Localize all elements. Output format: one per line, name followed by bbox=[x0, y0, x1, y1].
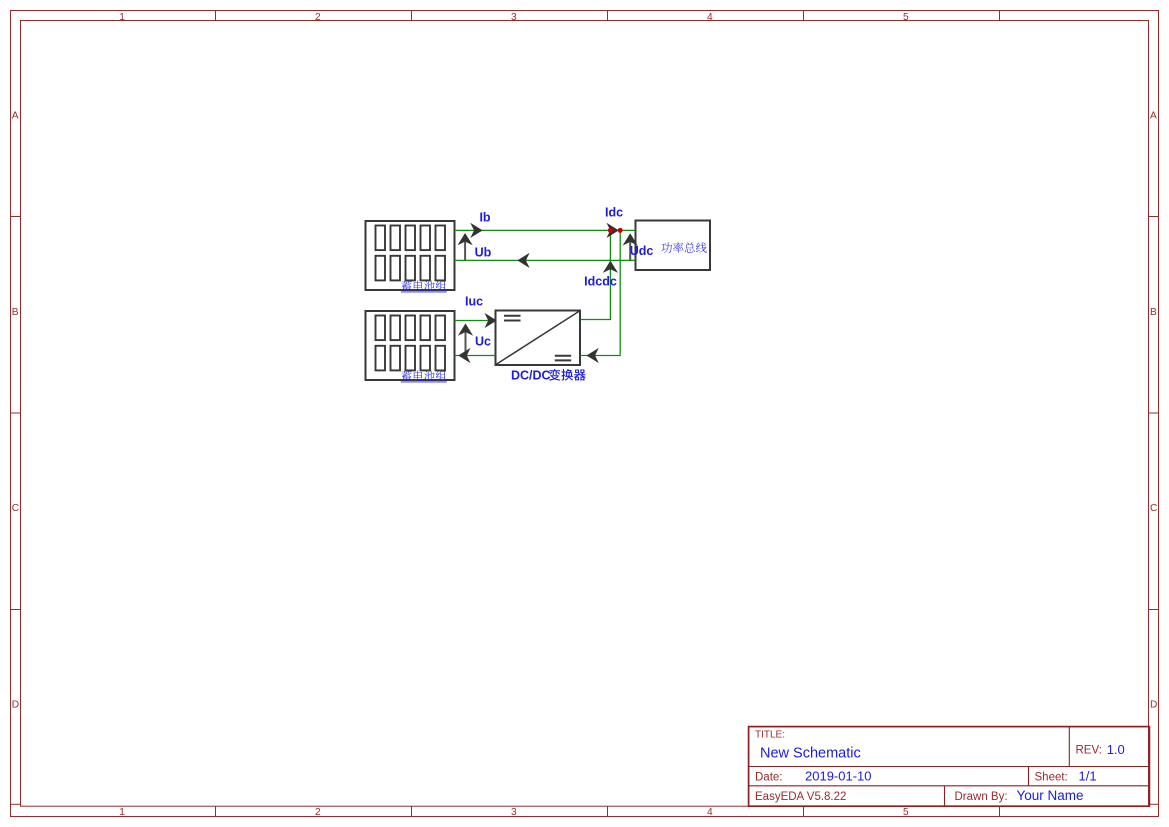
wire W6: W1 junction down to DC/DC right bottom bbox=[581, 230, 621, 355]
svg-text:Date:: Date: bbox=[755, 772, 783, 784]
svg-text:EasyEDA V5.8.22: EasyEDA V5.8.22 bbox=[755, 791, 846, 803]
label 功率总线 bbox=[661, 242, 706, 253]
svg-text:D: D bbox=[1150, 700, 1157, 711]
svg-text:Iuc: Iuc bbox=[465, 295, 483, 309]
arrow Iuc (right) bbox=[485, 313, 497, 328]
svg-text:4: 4 bbox=[707, 807, 713, 818]
arrow Uc (up) with shaft bbox=[458, 323, 473, 355]
svg-text:A: A bbox=[1150, 111, 1157, 122]
arrow Ib (right) bbox=[470, 223, 482, 238]
svg-text:Uc: Uc bbox=[475, 335, 491, 349]
wire W1: battery1 to bus (Ib/Idc net) bbox=[455, 229, 636, 231]
wire W5: DC/DC right top to W1 junction bbox=[581, 230, 611, 319]
wire W2: bus to battery1 (Ub/Udc net) bbox=[455, 259, 636, 261]
svg-text:2: 2 bbox=[315, 12, 321, 23]
svg-text:2019-01-10: 2019-01-10 bbox=[805, 769, 872, 784]
svg-text:DC/DC: DC/DC bbox=[511, 369, 551, 383]
svg-text:1.0: 1.0 bbox=[1107, 742, 1125, 757]
svg-text:B: B bbox=[12, 307, 19, 318]
arrow on W6 horizontal (left, into DC/DC) bbox=[587, 348, 599, 363]
label 蓄电池组 (BT2) bbox=[401, 371, 447, 382]
arrow Ub (up) with shaft bbox=[458, 233, 473, 260]
svg-text:Ub: Ub bbox=[475, 246, 492, 260]
svg-text:3: 3 bbox=[511, 12, 517, 23]
svg-text:B: B bbox=[1150, 307, 1157, 318]
svg-text:Ib: Ib bbox=[479, 211, 490, 225]
junction J2 bbox=[618, 228, 623, 233]
svg-text:Drawn By:: Drawn By: bbox=[955, 791, 1008, 803]
battery pack BT1 蓄电池组 bbox=[366, 221, 455, 290]
svg-text:1: 1 bbox=[119, 12, 125, 23]
battery pack BT2 蓄电池组 bbox=[366, 311, 455, 380]
DC/DC converter U1 bbox=[496, 311, 581, 366]
svg-text:Sheet:: Sheet: bbox=[1035, 772, 1068, 784]
junction J1 bbox=[608, 228, 613, 233]
svg-text:1: 1 bbox=[119, 807, 125, 818]
wire W4: DC/DC to battery2 (Uc net) bbox=[455, 355, 496, 357]
arrow on W2 (left) bbox=[517, 253, 529, 268]
svg-text:New Schematic: New Schematic bbox=[760, 746, 861, 762]
power bus box 功率总线 bbox=[636, 221, 711, 271]
arrow Uc (left, into battery2) bbox=[458, 348, 470, 363]
svg-text:C: C bbox=[1150, 503, 1157, 514]
svg-text:A: A bbox=[12, 111, 19, 122]
arrow Idc (right, at junctions) bbox=[607, 223, 619, 238]
svg-text:Idc: Idc bbox=[605, 206, 623, 220]
svg-text:Your Name: Your Name bbox=[1017, 788, 1084, 803]
wire W3: battery2 to DC/DC (Iuc net) bbox=[455, 320, 496, 322]
label 蓄电池组 (BT1) bbox=[401, 281, 447, 292]
svg-text:2: 2 bbox=[315, 807, 321, 818]
svg-text:TITLE:: TITLE: bbox=[755, 730, 785, 741]
svg-text:REV:: REV: bbox=[1076, 745, 1102, 757]
svg-text:D: D bbox=[12, 700, 19, 711]
svg-text:5: 5 bbox=[903, 12, 909, 23]
svg-text:3: 3 bbox=[511, 807, 517, 818]
label DC/DC变换器 bbox=[511, 369, 586, 383]
arrow Udc (up) with shaft bbox=[623, 233, 638, 260]
arrow Idcdc (up, on W5 vertical) bbox=[603, 261, 618, 273]
svg-text:5: 5 bbox=[903, 807, 909, 818]
svg-text:C: C bbox=[12, 503, 19, 514]
svg-text:Udc: Udc bbox=[630, 244, 654, 258]
svg-text:Idcdc: Idcdc bbox=[584, 275, 617, 289]
svg-text:1/1: 1/1 bbox=[1079, 769, 1097, 784]
svg-text:4: 4 bbox=[707, 12, 713, 23]
